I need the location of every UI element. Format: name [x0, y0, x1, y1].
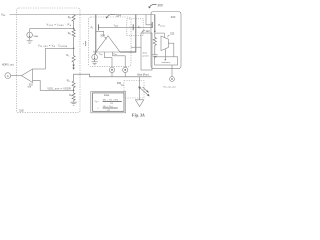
junction dot load — [139, 87, 141, 89]
svg-text:Fig. 3A: Fig. 3A — [132, 112, 145, 117]
node A junction dot — [73, 28, 75, 30]
load diagonal arrow 2 — [142, 87, 147, 92]
resistor R330 — [153, 31, 156, 54]
dashed box 310 (sense divider block) — [17, 8, 81, 113]
terminal T1 — [109, 67, 114, 72]
wire reference to terminal — [171, 65, 173, 77]
resistor RC — [72, 48, 75, 63]
svg-text:RY: RY — [108, 110, 110, 112]
ammeter A (HDRV output) — [5, 73, 11, 79]
buffer amp 302 — [22, 69, 33, 83]
svg-text:Vgate: Vgate — [114, 25, 119, 28]
wire mux bottom — [164, 49, 166, 60]
transistor P2 — [120, 15, 136, 53]
junction dot Ppass drain — [154, 31, 156, 33]
svg-text:Inset: Inset — [104, 94, 110, 97]
svg-text:P1: P1 — [91, 26, 94, 30]
dashed box 324 (amplifier block) — [89, 17, 132, 66]
wire buffer top input — [33, 68, 46, 70]
wire node A to current source — [30, 28, 74, 30]
svg-text:reference: reference — [162, 61, 172, 64]
svg-text:304: 304 — [100, 33, 105, 37]
svg-text:112: 112 — [145, 29, 150, 33]
wire op-amp inn to terminal — [113, 52, 126, 67]
current direction double arrow — [73, 63, 75, 69]
wire divider top corner — [72, 74, 152, 90]
wire into box 112 — [131, 46, 141, 48]
wire drain bus — [155, 32, 165, 34]
svg-text:VDD_sns = VDDR: VDD_sns = VDDR — [47, 87, 71, 90]
inset formula box — [91, 91, 126, 112]
current source IBIAS — [29, 29, 31, 33]
ground (below R330) — [152, 55, 158, 58]
box 330 (regulator block) — [151, 12, 181, 69]
svg-text:Bias (Run): Bias (Run) — [137, 74, 148, 77]
ground (below RY) — [70, 102, 77, 105]
svg-text:A: A — [7, 74, 9, 78]
svg-text:DC_sns_out: DC_sns_out — [163, 85, 175, 88]
resistor RB — [72, 29, 75, 49]
current source Itail — [92, 54, 98, 60]
dashed box 312 (mirror device) — [127, 19, 143, 36]
load diagonal arrow 1 — [139, 87, 149, 96]
terminal DC_sns_out — [170, 77, 175, 82]
resistor RY — [72, 90, 75, 102]
svg-text:HDRV_out: HDRV_out — [2, 64, 14, 67]
wire op-amp output — [96, 31, 104, 36]
box reference — [155, 57, 178, 65]
svg-text:330: 330 — [171, 15, 176, 19]
svg-text:Vinp: Vinp — [99, 54, 103, 56]
open arrow down — [135, 100, 143, 107]
wire buffer bottom to VDD_sns — [33, 80, 74, 90]
svg-text:P2: P2 — [138, 26, 141, 30]
wire load to arrow — [139, 88, 141, 100]
mux 332 — [161, 36, 168, 51]
wire mux output — [168, 43, 173, 57]
svg-text:VIN_SNS = VA · CSENSE: VIN_SNS = VA · CSENSE — [38, 44, 68, 48]
wire mux top input — [163, 33, 165, 38]
ground (below IBIAS) — [27, 38, 33, 44]
transistor Ppass — [154, 15, 156, 32]
op-amp 304 — [96, 36, 120, 52]
ground (below Itail) — [92, 60, 98, 65]
svg-text:332: 332 — [170, 31, 175, 35]
box 112 (drive current block) — [141, 33, 152, 70]
node B junction dot — [73, 48, 75, 50]
brace 322 — [84, 41, 87, 46]
wire rail bend to Ppass gate — [146, 15, 152, 25]
svg-text:318: 318 — [19, 109, 24, 113]
junction dot VDD_sns — [73, 90, 75, 92]
wire gate bus — [98, 26, 152, 28]
wire node B tap — [45, 48, 73, 69]
dashed box 360 (load) — [124, 81, 144, 99]
svg-text:360: 360 — [117, 81, 122, 85]
svg-text:324: 324 — [116, 14, 121, 18]
svg-text:300: 300 — [157, 3, 163, 7]
wire VIN top rail — [10, 14, 155, 16]
wire load stem — [139, 77, 141, 88]
transistor P1 — [95, 15, 96, 55]
terminal T2 — [123, 67, 128, 72]
svg-text:current: current — [142, 55, 149, 58]
wire op-amp inp to terminal — [104, 52, 112, 67]
resistor RA — [72, 15, 75, 29]
wire ammeter to buffer — [11, 75, 22, 77]
